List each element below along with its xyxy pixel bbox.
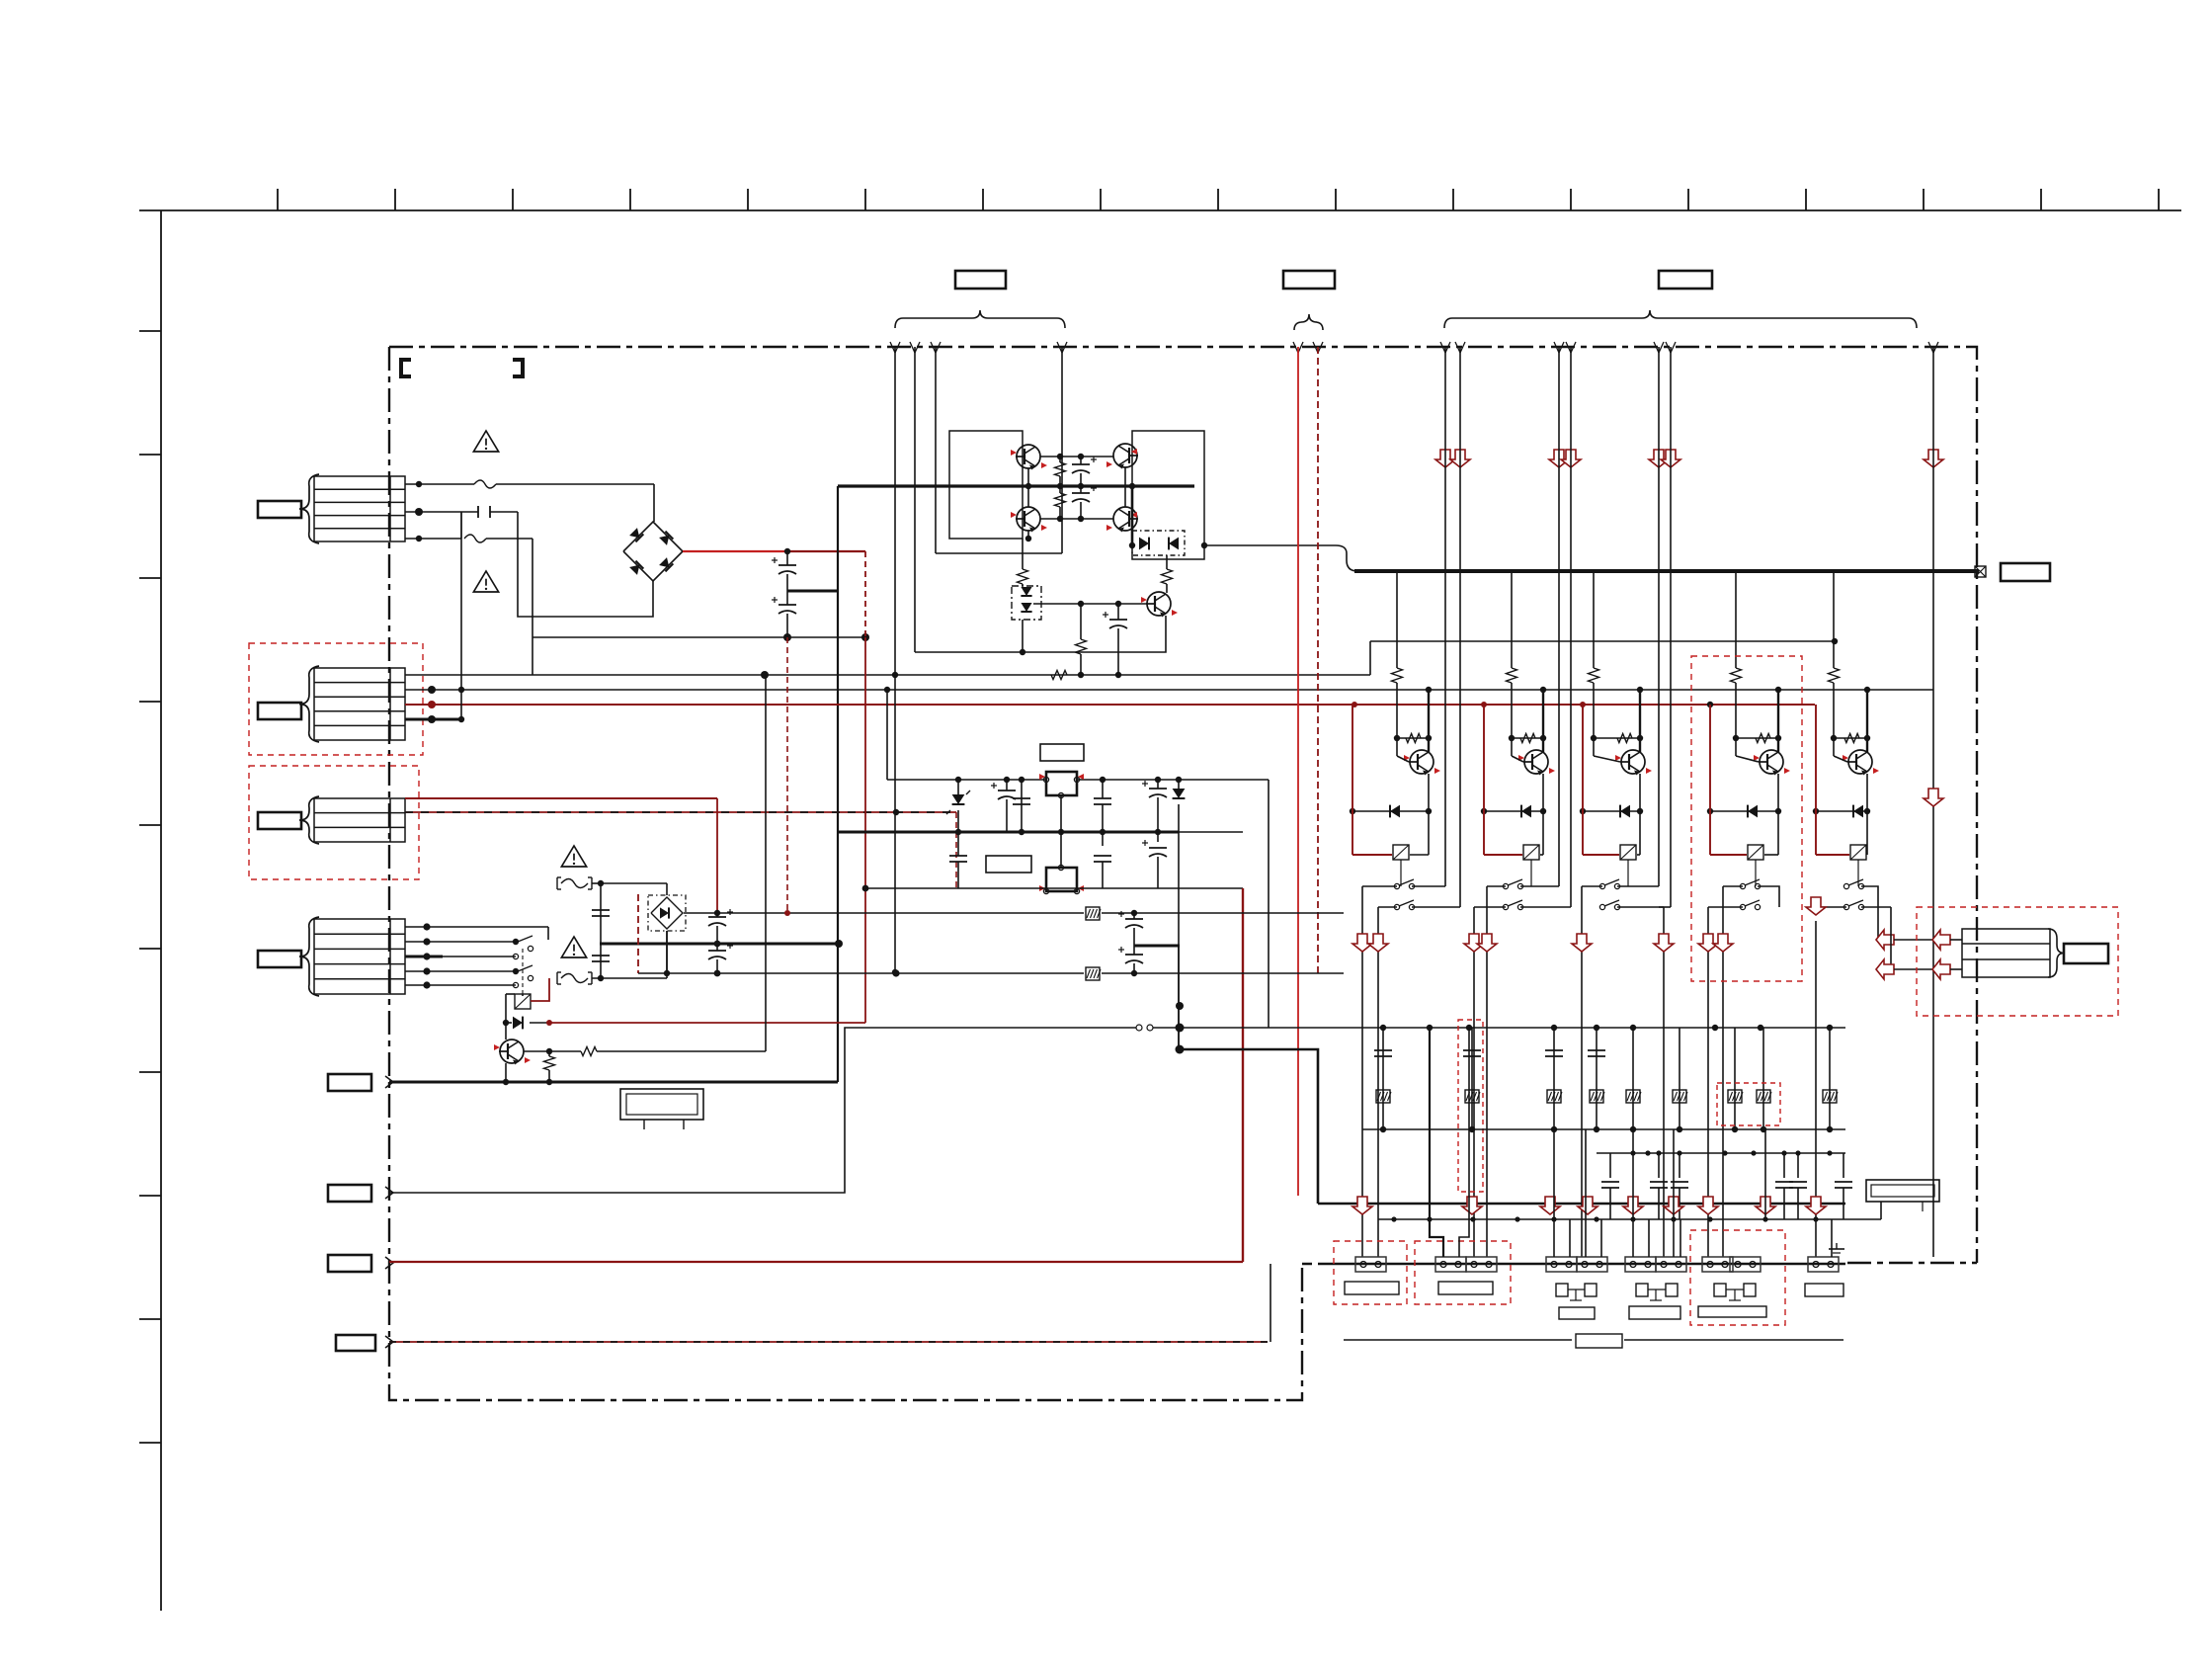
label box small	[986, 856, 1031, 873]
diode D2	[503, 1020, 509, 1026]
T3 secondary wire 2 red-black dashed	[405, 811, 956, 813]
supply rail y789	[887, 779, 1046, 781]
snubber column x1756	[1734, 1028, 1736, 1129]
Q5 emitter wire y660	[915, 616, 1166, 652]
CN3 label box	[1559, 1307, 1595, 1319]
connector CN5	[1702, 1257, 1733, 1272]
negative return rail	[533, 636, 865, 638]
ruler tick left	[139, 330, 161, 332]
rail y1143	[1362, 1128, 1845, 1130]
ruler tick left	[139, 948, 161, 950]
channel 3 collector drop	[1593, 572, 1595, 668]
input label 2	[328, 1185, 371, 1202]
cap X2 on T1 bottom	[460, 512, 462, 539]
T2 vertical link x467	[460, 512, 462, 719]
Y-drop x906	[894, 347, 896, 972]
channel 3 switch lower	[1599, 904, 1604, 909]
double box DC det	[1866, 1180, 1939, 1202]
connector CN2	[1435, 1257, 1466, 1272]
input wire 1 thick	[389, 1081, 838, 1084]
x898 drop	[886, 690, 888, 780]
motor label box	[2064, 944, 2108, 963]
rail A upturn x1387	[1369, 641, 1371, 675]
channel 1 lower feed wire	[1378, 906, 1397, 908]
red service box CN2	[1415, 1241, 1511, 1304]
Y-drop x947 staple	[935, 347, 937, 553]
channel 4 emitter column	[1777, 774, 1779, 855]
connector CN1	[1355, 1257, 1386, 1272]
bias cap C3	[1072, 463, 1090, 465]
bottom rule	[1344, 1339, 1572, 1341]
ruler tick top	[2040, 189, 2042, 210]
channel 2 switch upper	[1503, 883, 1508, 888]
relay IC2	[1060, 795, 1062, 868]
supply out rail y985	[638, 972, 1084, 974]
jack2 symbols	[1714, 1284, 1726, 1296]
snubber column x1653	[1632, 1028, 1634, 1129]
wire T1 mid with X-cap	[405, 511, 478, 513]
rail D y728	[405, 718, 462, 721]
input wire 3 red	[389, 1261, 1243, 1263]
relay red stub	[531, 978, 549, 1001]
input label 1	[328, 1074, 371, 1091]
ruler tick top	[629, 189, 631, 210]
vertical x1193 down	[1178, 832, 1180, 1049]
channel 5 flyback diode	[1816, 810, 1867, 812]
ruler tick top	[277, 189, 279, 210]
transformer T3	[314, 798, 405, 842]
ruler left edge	[160, 210, 162, 1611]
channel 2 base resistor	[1512, 737, 1543, 739]
Q5 base rail y611	[1033, 603, 1147, 605]
y1062 link to thick frame	[1180, 1049, 1318, 1204]
T4 label box	[258, 951, 301, 967]
thick secondary mid rail y955	[600, 943, 839, 946]
channel 2 transistor	[1524, 750, 1548, 774]
CN4 jack symbols	[1636, 1284, 1648, 1296]
channel 4 flyback diode	[1710, 810, 1778, 812]
standby thick bus	[1354, 569, 1979, 573]
channel 1 collector drop	[1396, 572, 1398, 668]
smoothing cap C2	[786, 591, 788, 605]
channel 3 base resistor	[1594, 737, 1640, 739]
cap C8	[1102, 780, 1104, 798]
wire to standby bus S-curve	[1204, 545, 1357, 571]
bus label box	[2001, 563, 2050, 581]
motor brace	[2048, 929, 2064, 977]
zener ZD1	[957, 780, 959, 796]
transistor Q2	[1113, 444, 1137, 467]
long vertical feeds	[1444, 347, 1446, 886]
ruler tick top	[512, 189, 514, 210]
transistor Q4	[1113, 507, 1137, 531]
red wire bridge + output	[683, 550, 785, 552]
ch3 lower jog to CN4	[1617, 906, 1664, 908]
red bus drop x1258	[1242, 888, 1244, 1262]
snubber column x1400	[1382, 1028, 1384, 1129]
board outline dash-dot border	[389, 347, 1977, 1263]
x1286 up stub	[1270, 1264, 1271, 1342]
channel 1 feed from rail	[1428, 690, 1430, 738]
T4 brace	[299, 917, 319, 996]
ch1 jog wires	[1430, 1028, 1443, 1257]
ruler tick top	[1335, 189, 1337, 210]
snubber column x1852	[1829, 1028, 1831, 1129]
input wire 4 red dashed	[389, 1341, 1268, 1343]
ruler tick left	[139, 1442, 161, 1444]
zener pair box	[1012, 586, 1041, 620]
IC1 label box	[1040, 744, 1084, 761]
fuse F2 row	[556, 877, 558, 889]
power switch S1	[513, 939, 519, 945]
caps C10 C11 lower	[957, 832, 959, 846]
snubber red dashed box B	[1717, 1083, 1780, 1125]
ruler tick left	[139, 701, 161, 703]
rail y1234	[1378, 1218, 1845, 1220]
ruler tick top	[1452, 189, 1454, 210]
CN1 label box	[1345, 1282, 1399, 1294]
transistor Q3	[1017, 507, 1040, 531]
channel 2 lower feed wire	[1474, 906, 1506, 908]
channel 4 upper feed wire	[1723, 885, 1743, 887]
channel 4 relay red feed	[1709, 705, 1711, 855]
connector splice	[1136, 1025, 1142, 1031]
warning triangle 1	[473, 431, 498, 452]
ruler tick top	[1805, 189, 1807, 210]
T2 red service box	[249, 643, 423, 755]
staircase links to Y-drops	[1412, 885, 1445, 887]
warning triangle 4	[561, 937, 586, 957]
bias resistor R2	[1059, 486, 1061, 493]
CN2 label box	[1438, 1282, 1493, 1294]
channel 5 transistor	[1848, 750, 1872, 774]
channel 1 transistor	[1410, 750, 1434, 774]
channel 2 upper feed wire	[1487, 885, 1506, 887]
channel 5 collector drop	[1833, 572, 1835, 668]
channel 3 switch upper	[1599, 883, 1604, 888]
ruler tick left	[139, 577, 161, 579]
bias cap C4	[1072, 492, 1090, 494]
input label 4	[336, 1335, 375, 1351]
smoothing cap C1	[786, 551, 788, 565]
Q5 collector chain	[1166, 555, 1168, 569]
brace A	[895, 310, 1065, 328]
T4 tap dots	[423, 923, 430, 930]
emitter resistor R5	[544, 1056, 555, 1070]
ruler tick top	[1923, 189, 1925, 210]
connector row bus	[1324, 1263, 1845, 1266]
rail A y683	[405, 674, 1370, 676]
channel 4 switch lower	[1740, 904, 1745, 909]
transformer T2	[314, 668, 405, 740]
channel 3 flyback diode	[1583, 810, 1640, 812]
channel 5 switch lower	[1843, 904, 1848, 909]
connector CN6	[1808, 1257, 1839, 1272]
ruler tick top	[2158, 189, 2160, 210]
driver box left	[949, 431, 1023, 539]
main vertical bus x848	[837, 486, 839, 1082]
bias resistor R1	[1059, 457, 1061, 462]
bridge rectifier D1 diamond	[623, 522, 683, 581]
cap column x1132	[1117, 604, 1119, 620]
ch5 lower feed	[1861, 906, 1891, 908]
warning triangle 2	[473, 571, 498, 592]
channel 1 base resistor	[1397, 737, 1429, 739]
channel 1 emitter column	[1428, 774, 1430, 855]
label box B	[1283, 271, 1335, 289]
cap CX2	[592, 955, 610, 957]
red control line y1035	[549, 1022, 865, 1024]
motor red service box	[1917, 907, 2118, 1016]
mid arrows row	[1352, 934, 1372, 952]
feedback vertical x775	[765, 675, 767, 1051]
thick mid rail y842	[838, 831, 1179, 834]
ruler top edge	[139, 209, 2181, 211]
T1 brace	[299, 474, 319, 543]
x1194 node dots	[1178, 947, 1180, 1049]
rail y1167	[1597, 1152, 1845, 1154]
T2 label box	[258, 703, 301, 719]
coupling wires	[1040, 456, 1113, 458]
channel 5 emitter column	[1866, 774, 1868, 855]
thick drive rail	[838, 484, 1194, 487]
ground rail y1040	[1153, 1027, 1845, 1029]
ruler tick left	[139, 824, 161, 826]
T3 red service box	[249, 766, 419, 879]
Q6 base resistor	[524, 1050, 549, 1052]
line fuse to bridge2	[601, 882, 667, 884]
channel 5 switch upper	[1843, 883, 1848, 888]
channel 4 lower feed wire	[1708, 906, 1743, 908]
channel 1 switch upper	[1394, 883, 1399, 888]
channel 4 switch upper	[1740, 883, 1745, 888]
caps C6 C7	[1006, 780, 1008, 790]
transistor Q5	[1147, 592, 1171, 616]
channel 4 relay	[1748, 845, 1763, 860]
section bracket glyphs	[401, 360, 411, 376]
regulator IC1	[1046, 772, 1077, 795]
snubber red dashed box A	[1458, 1020, 1483, 1192]
red feed dashed x1334	[1317, 347, 1319, 973]
label box A	[955, 271, 1006, 289]
x797 dashed drop	[786, 637, 788, 913]
T1 area vertical x539	[532, 637, 533, 675]
snubber column x1490	[1471, 1028, 1473, 1129]
fuse F1	[556, 972, 558, 984]
ruler tick top	[1570, 189, 1572, 210]
channel 2 collector drop	[1511, 572, 1513, 668]
channel 2 relay	[1523, 845, 1539, 860]
lower rail y899	[865, 887, 1243, 889]
motor output wires	[1876, 930, 1894, 950]
bridge2 negative drop	[666, 931, 668, 973]
red service box CN1	[1334, 1241, 1407, 1304]
Q4 emitter thick	[1131, 486, 1134, 545]
ruler tick top	[864, 189, 866, 210]
power IC double box	[620, 1089, 703, 1120]
channel 2 switch lower	[1503, 904, 1508, 909]
dual diode coupler box	[1132, 531, 1185, 555]
channel 3 transistor	[1621, 750, 1645, 774]
ruler tick left	[139, 1318, 161, 1320]
channel 5 feed from rail	[1866, 690, 1868, 738]
input label 3	[328, 1255, 371, 1272]
channel 2 feed from rail	[1542, 690, 1544, 738]
CN5 feed verticals	[1831, 1219, 1833, 1257]
reservoir caps at x726	[716, 913, 718, 917]
channel 3 emitter column	[1639, 774, 1641, 855]
T3 label box	[258, 812, 301, 829]
transformer T1	[314, 476, 405, 541]
channel 4 base resistor	[1736, 737, 1778, 739]
ruler tick left	[139, 1071, 161, 1073]
ruler tick top	[1217, 189, 1219, 210]
T3 red drop to bridge2 rail	[716, 798, 718, 913]
x876 red dashed return	[864, 551, 866, 637]
channel 5 base resistor	[1834, 737, 1867, 739]
channel 4 transistor	[1760, 750, 1783, 774]
lower caps row	[1609, 1153, 1611, 1178]
driver box right	[1132, 431, 1204, 559]
filter mid node	[1134, 945, 1180, 948]
cap CX1	[592, 909, 610, 911]
bridge2 dashed box	[648, 895, 686, 931]
wire T1 bottom with fuse	[405, 538, 461, 540]
channel 1 upper feed wire	[1362, 885, 1397, 887]
CN5 label box	[1805, 1284, 1843, 1296]
dashed drop to lower rail	[955, 812, 957, 888]
mid node thick link	[787, 590, 838, 593]
wire T1 top to bridge	[405, 483, 474, 485]
ruler tick top	[394, 189, 396, 210]
jack2 label box	[1698, 1306, 1766, 1317]
channel 3 relay	[1620, 845, 1636, 860]
channel 2 emitter column	[1542, 774, 1544, 855]
bridge2 left red dashed link	[637, 894, 639, 973]
channel 1 flyback diode	[1352, 810, 1429, 812]
diode D3	[1178, 780, 1180, 790]
ruler tick top	[1100, 189, 1102, 210]
CN3 feed verticals	[1553, 1129, 1555, 1257]
resistor R3	[1022, 539, 1024, 569]
connector CN3	[1546, 1257, 1577, 1272]
relay link vertical	[505, 994, 507, 1023]
connector CN4	[1625, 1257, 1656, 1272]
channel 1 relay	[1393, 845, 1409, 860]
bottom rule label box	[1576, 1334, 1622, 1348]
rail C red y713	[405, 704, 1815, 706]
transistor Q6	[500, 1040, 524, 1063]
supply out rail y924	[684, 912, 1084, 914]
ground symbol	[1836, 1243, 1838, 1249]
rail B y698	[405, 689, 1933, 691]
channel 3 feed from rail	[1639, 690, 1641, 738]
thick bottom rail y1218	[1318, 1203, 1845, 1206]
channel 2 relay red feed	[1483, 705, 1485, 855]
ch5 upper feed to motor	[1861, 886, 1878, 940]
T3 secondary wire red	[405, 797, 717, 799]
motor coil	[1962, 929, 2050, 977]
ecap C12	[1157, 832, 1159, 842]
channel 1 relay red feed	[1352, 705, 1353, 855]
red service box jack	[1690, 1230, 1785, 1325]
T4 tap wires	[405, 926, 548, 928]
arrow lower right	[1924, 789, 1943, 806]
warning triangle 3	[561, 846, 586, 867]
x1284 drop	[1268, 780, 1270, 1028]
ruler tick top	[747, 189, 749, 210]
wire AC2 to bridge loop	[518, 512, 653, 617]
channel ladder red dashed box	[1691, 656, 1802, 981]
channel 4 collector drop	[1735, 572, 1737, 668]
brace C	[1444, 310, 1917, 328]
channel 4 feed from rail	[1777, 690, 1779, 738]
snubber column x1785	[1762, 1028, 1764, 1129]
filter caps C13 C14	[1133, 913, 1135, 919]
bottom arrows row	[1352, 1197, 1372, 1214]
ruler tick top	[982, 189, 984, 210]
transistor Q1	[1017, 445, 1040, 468]
CN4 label box	[1629, 1306, 1680, 1319]
channel 1 switch lower	[1394, 904, 1399, 909]
top border Y entries	[890, 342, 895, 353]
T2 brace	[299, 666, 319, 742]
ruler tick top	[1687, 189, 1689, 210]
ruler tick left	[139, 454, 161, 456]
channel 5 relay red feed	[1815, 705, 1817, 855]
T1 tap dots	[416, 481, 422, 487]
CN3 jack symbols	[1556, 1284, 1568, 1296]
input wire 2	[389, 1028, 1136, 1193]
R network column x1094	[1080, 604, 1082, 639]
upper red arrows row	[1435, 450, 1455, 467]
bus terminal X-box	[1975, 566, 1986, 577]
channel 3 relay red feed	[1582, 705, 1584, 855]
wire x539 down to negative node	[532, 539, 533, 637]
T1 label box	[258, 501, 301, 518]
zener bottom link	[1022, 620, 1024, 652]
relay RY0	[522, 994, 524, 996]
Y-drop x926	[914, 347, 916, 652]
transformer T4	[314, 919, 405, 994]
ruler tick left	[139, 1195, 161, 1197]
snubber column x1573	[1553, 1028, 1555, 1129]
ecap C9	[1157, 780, 1159, 789]
CN4 feed verticals	[1632, 1129, 1634, 1257]
snubber column x1700	[1679, 1028, 1680, 1129]
channel 5 relay	[1850, 845, 1866, 860]
label box C	[1659, 271, 1712, 289]
T3 brace	[299, 796, 319, 844]
channel 3 upper feed wire	[1582, 885, 1602, 887]
channel 2 flyback diode	[1484, 810, 1543, 812]
snubber column x1616	[1596, 1028, 1598, 1129]
red feed x1314	[1297, 347, 1299, 1196]
sense line y649	[1370, 640, 1835, 642]
brace B	[1294, 314, 1323, 330]
